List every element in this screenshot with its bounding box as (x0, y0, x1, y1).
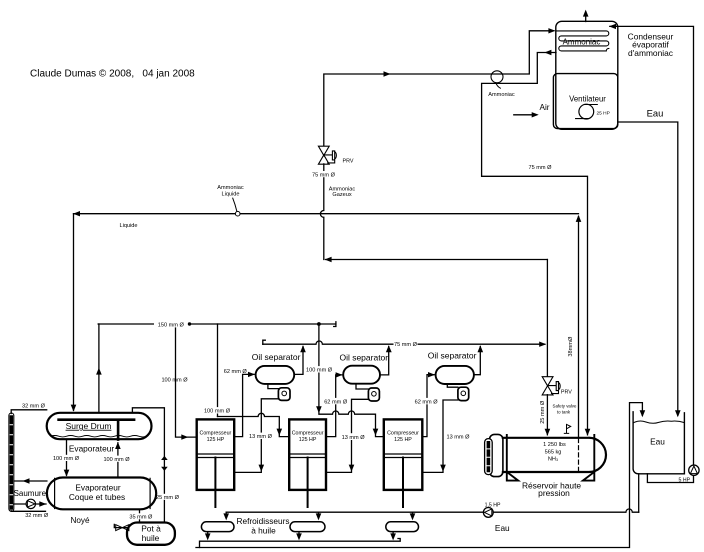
wire: discharge tee vertical x=547.4 down to PRV2 (546, 260, 548, 377)
svg-text:Oil separator: Oil separator (339, 353, 388, 363)
oil trap 3 (458, 387, 469, 400)
wire: compressor3 discharge 62mm to oil separator3 (422, 375, 434, 437)
high pressure receiver vessel (503, 438, 606, 472)
svg-text:25 mm Ø: 25 mm Ø (156, 495, 180, 501)
svg-text:à huile: à huile (251, 526, 276, 536)
arrow: vent stack up (583, 10, 589, 17)
wire: oil separator3 bottom to trap3 (447, 384, 458, 387)
wire: suction drop to compressor1 left x=175.5 (176, 324, 197, 437)
wire: oil separator2 bottom to trap2 (356, 384, 368, 389)
svg-text:Evaporateur: Evaporateur (75, 482, 120, 492)
arrow: oil pot line double arrow up (161, 456, 168, 460)
arrow: suction into compressor3 (373, 429, 379, 436)
junction dots on suction header (188, 322, 191, 325)
arrow: into condenser coil (548, 28, 555, 33)
svg-text:62 mm Ø: 62 mm Ø (324, 399, 348, 405)
label: 13 mm diam 1 (248, 433, 273, 441)
arrow: condenser liquid out left (544, 50, 551, 55)
label: 25 mm diam oil pot line (156, 494, 180, 501)
svg-text:62 mm Ø: 62 mm Ø (415, 399, 439, 405)
wire: bottom water return line to tank riser (196, 403, 642, 548)
wire: liquid line drop to surge drum x=73.5 (73, 214, 75, 411)
condenser: fan section box (553, 74, 617, 129)
svg-text:Air: Air (539, 103, 549, 112)
arrow: suction drop x=318.9 down (316, 406, 322, 413)
arrow: discharge header right into tee (539, 342, 546, 347)
wire: cooling water drops into oil coolers (226, 512, 412, 517)
svg-text:100 mm Ø: 100 mm Ø (103, 457, 130, 463)
svg-text:PRV: PRV (343, 158, 354, 164)
label: 100 mm diam drop x217 (203, 407, 231, 415)
label: 100 mm diam evap riser (103, 456, 130, 463)
arrow: oil separator3 riser up (478, 345, 484, 352)
svg-text:d'ammoniac: d'ammoniac (628, 48, 673, 58)
svg-text:32 mm Ø: 32 mm Ø (25, 513, 49, 519)
oil pot vessel (127, 523, 175, 545)
svg-text:100 mm Ø: 100 mm Ø (53, 456, 80, 462)
ammoniac label loop on gas line (491, 71, 503, 83)
wire: condenser water outlet to tank (618, 122, 678, 415)
wire: compressor2 discharge 62mm to oil separator2 (326, 375, 342, 437)
svg-text:Ventilateur: Ventilateur (569, 95, 606, 104)
svg-text:Eau: Eau (495, 523, 510, 533)
compressor 3 body (384, 419, 423, 490)
svg-text:Pot à: Pot à (141, 523, 161, 533)
svg-text:1 250 lbs: 1 250 lbs (543, 442, 566, 448)
svg-text:pression: pression (538, 488, 570, 498)
wire: oil separator1 outlet riser (294, 347, 303, 375)
svg-text:Saumure: Saumure (14, 489, 47, 498)
wire: suction drop x=318.9 to compressor3 (319, 324, 384, 437)
arrow: liquid line left at corner (73, 211, 80, 216)
svg-text:Surge Drum: Surge Drum (66, 421, 112, 431)
surge drum liquid level wavy line (51, 436, 147, 437)
water tank walls (633, 412, 684, 474)
arrow: suction riser up mid (96, 368, 102, 375)
oil trap 1 (278, 388, 290, 401)
arrow: water drop cooler1 (223, 513, 229, 520)
svg-text:Compresseur: Compresseur (387, 431, 419, 437)
wire: surge drum inlet from evaporator 100mm (66, 440, 68, 476)
svg-text:NH₃: NH₃ (548, 456, 558, 462)
wire: oil cooler drains to collect line (208, 532, 393, 538)
arrow: brine into evaporator (39, 501, 46, 506)
svg-text:75 mm Ø: 75 mm Ø (528, 165, 552, 171)
wire: evaporator drain to oil pot 35mm (139, 509, 141, 522)
label: 75 mm diam PRV1 (311, 171, 336, 177)
surge drum vessel (47, 413, 152, 439)
wire: suction header end bracket (334, 322, 336, 327)
arrow: oil return2 down (349, 465, 355, 472)
compressor 2 body (289, 419, 326, 490)
arrow: brine out left (23, 478, 30, 483)
arrow: PRV2 into receiver (545, 429, 551, 436)
wire: brine outlet to chiller column (14, 480, 47, 482)
svg-text:huile: huile (142, 533, 160, 543)
wire: tank overflow drop to bottom water line (638, 474, 640, 512)
arrow: cooler3 drain (390, 533, 396, 540)
arrow: air inlet (532, 112, 539, 117)
wire: chiller column top connection 32mm (11, 410, 47, 414)
brine pump (26, 499, 35, 508)
svg-text:62 mm Ø: 62 mm Ø (224, 369, 248, 375)
svg-text:35 mm Ø: 35 mm Ø (129, 514, 153, 520)
arrow: water into tank from return riser (640, 410, 646, 417)
arrow: oil separator1 riser up (300, 345, 306, 352)
svg-text:Claude Dumas © 2008, 04 jan: Claude Dumas © 2008, 04 jan 2008 (30, 69, 195, 80)
wire: oil return3 13mm to compressor3 (422, 400, 458, 472)
svg-text:Oil separator: Oil separator (428, 351, 477, 361)
arrow: condenser drain into receiver (585, 429, 591, 436)
svg-text:125 HP: 125 HP (394, 437, 412, 443)
wire: PRV2 to reservoir top (546, 395, 548, 435)
svg-text:Ammoniac: Ammoniac (563, 38, 601, 47)
label: 100 mm diam drum to evap (53, 455, 80, 462)
arrow: water into condenser top (609, 24, 616, 29)
receiver dip tube dashed (578, 439, 580, 472)
wire: hot gas line y=259.5 from discharge tee (326, 259, 548, 261)
wire: air inlet arrow line (514, 114, 537, 116)
arrow: cooler1 drain (205, 533, 211, 540)
label: 150 mm diam (154, 321, 188, 329)
oil separator 3 vessel (436, 366, 474, 384)
arrow: receiver riser up to liquid line (576, 215, 582, 222)
oil cooler 2 (290, 522, 325, 532)
arrow: into oil separator2 (336, 372, 343, 377)
wire: surge drum suction riser x=98.9 (97, 324, 100, 413)
svg-text:75 mm Ø: 75 mm Ø (312, 172, 336, 178)
svg-text:Compresseur: Compresseur (200, 431, 232, 437)
svg-text:125 HP: 125 HP (207, 437, 225, 443)
wire: collect line y=541.2 with end hook (200, 539, 401, 548)
oil separator 1 vessel (256, 366, 295, 384)
water tank wave (633, 421, 684, 423)
oil separator 2 vessel (343, 366, 380, 384)
wire: condenser vent stack (585, 12, 587, 21)
svg-text:75 mm Ø: 75 mm Ø (394, 342, 418, 348)
arrow: into oil separator3 (428, 372, 435, 377)
oil trap 2 (368, 388, 379, 401)
condenser: fan circle (579, 104, 594, 119)
wire: brine pump line 32mm (14, 503, 47, 505)
svg-text:1,5 HP: 1,5 HP (485, 502, 501, 508)
arrow: suction into compressor2 (277, 429, 283, 436)
condenser: ammonia coil serpentine (556, 31, 609, 51)
receiver level flag (564, 424, 570, 433)
receiver level gauge (485, 439, 493, 475)
label: 62 mm diam comp3 (413, 398, 439, 406)
arrow: liquid into surge drum (71, 405, 77, 412)
arrow: oil return3 down (440, 465, 446, 472)
svg-text:100 mm Ø: 100 mm Ø (306, 368, 333, 374)
wire: oil separator1 bottom to trap1 (268, 384, 279, 389)
wire: surge drum right port to oil pot 25mm (132, 408, 164, 523)
svg-text:Evaporateur: Evaporateur (69, 444, 114, 454)
receiver support right (583, 435, 594, 481)
wire: evaporator return riser 100mm (117, 443, 119, 478)
label: 13 mm diam 2 (339, 433, 367, 441)
svg-text:to tank: to tank (557, 409, 571, 414)
arrow: evaporator riser up into drum (115, 442, 121, 449)
svg-text:125 HP: 125 HP (299, 437, 317, 443)
wire: cooling water line y=512.2 with hop (226, 509, 639, 512)
wire: suction drop x=217.5 (217, 324, 219, 417)
svg-text:Liquide: Liquide (221, 191, 239, 197)
wire: compressor1 discharge 62mm to oil separator1 (234, 374, 254, 436)
svg-text:150 mm Ø: 150 mm Ø (158, 322, 185, 328)
arrow: gas to condenser right (384, 71, 391, 76)
receiver left flange (490, 434, 503, 476)
receiver support left (507, 435, 518, 481)
svg-text:13 mm Ø: 13 mm Ø (446, 434, 470, 440)
svg-text:Gazeux: Gazeux (332, 192, 351, 198)
compressor 1 body (197, 419, 235, 490)
arrow: oil separator2 riser up (386, 345, 392, 352)
wire: condenser water supply line from pump (610, 26, 694, 465)
arrow: into oil separator1 (248, 372, 255, 377)
wire: oil separator3 outlet riser (474, 347, 480, 375)
label: 100 mm diam drop x318 (305, 366, 333, 374)
water pump 1.5HP (483, 508, 493, 518)
svg-text:Noyé: Noyé (70, 516, 90, 525)
wire: oil return1 13mm to compressor1 (234, 399, 278, 473)
label: 62 mm diam comp2 (323, 398, 348, 406)
arrow: oil return1 down (259, 465, 265, 472)
wire: liquid line from receiver to surge drum y=213.7 (74, 213, 579, 215)
wire: chiller column bottom line (11, 510, 45, 513)
arrow: condenser water into tank (675, 410, 681, 417)
brine chiller column (9, 413, 14, 511)
svg-text:Coque et tubes: Coque et tubes (69, 492, 125, 502)
svg-text:25 mm Ø: 25 mm Ø (540, 400, 546, 424)
liquid line label node (235, 211, 240, 216)
valve: oil pot drain valve (116, 525, 129, 531)
valve PRV1 (318, 146, 336, 164)
svg-text:Safety valve: Safety valve (553, 403, 577, 408)
svg-text:Compresseur: Compresseur (292, 431, 324, 437)
svg-text:Eau: Eau (650, 437, 665, 447)
wire: oil separator2 outlet riser (380, 347, 389, 375)
valve PRV2 (542, 377, 560, 395)
wire: suction branch y=416.5 to compressor2 (218, 413, 290, 436)
label: 75 mm diam discharge header (394, 340, 418, 348)
arrow: water drop cooler2 (316, 513, 322, 520)
svg-text:5 HP: 5 HP (679, 477, 691, 483)
oil cooler 1 (201, 522, 234, 532)
evaporator shell and tubes vessel (47, 478, 156, 510)
svg-text:32 mm Ø: 32 mm Ø (22, 404, 46, 410)
svg-text:Liquide: Liquide (119, 223, 137, 229)
svg-text:25 HP: 25 HP (597, 111, 610, 117)
svg-text:565 kg: 565 kg (545, 449, 562, 455)
wire: oil return2 13mm to compressor2 (326, 399, 368, 472)
svg-text:Ammoniac: Ammoniac (488, 92, 515, 98)
svg-text:Oil separator: Oil separator (252, 352, 301, 362)
water pump 5HP (689, 465, 699, 475)
svg-text:13 mm Ø: 13 mm Ø (342, 435, 366, 441)
arrow: suction into compressor1 (181, 434, 188, 439)
wire: receiver dip tube riser x=578.5 (578, 217, 580, 438)
wire: suction header 150mm (98, 323, 336, 325)
wire: compressor discharge header 75mm (263, 341, 545, 344)
svg-text:100 mm Ø: 100 mm Ø (161, 378, 188, 384)
svg-text:PRV: PRV (561, 389, 572, 395)
wire: discharge header start bracket (263, 340, 266, 344)
arrow: water drop cooler3 (410, 513, 416, 520)
wire: condenser liquid drain 75mm (482, 53, 588, 435)
arrow: hot gas line left into PRV riser (325, 257, 332, 262)
arrow: surge drum down to evaporator (64, 470, 70, 477)
svg-text:Eau: Eau (647, 108, 664, 119)
svg-text:38mmØ: 38mmØ (568, 336, 574, 357)
svg-text:Ammoniac: Ammoniac (217, 185, 244, 191)
oil cooler 3 (386, 522, 419, 532)
arrow: cooler2 drain (296, 533, 302, 540)
label: 13 mm diam 3 (445, 433, 471, 441)
wire: oil pot valve stub (114, 524, 127, 527)
surge drum internal distributor pipe (59, 418, 135, 421)
wire: gas riser to condenser (75mm) with hop over liquid line (320, 164, 323, 260)
wire: pump 5HP suction from tank bottom (647, 474, 693, 483)
svg-text:100 mm Ø: 100 mm Ø (204, 409, 231, 415)
label: 35 mm diam (129, 513, 153, 520)
condenser: outer shell (556, 21, 618, 129)
svg-text:13 mm Ø: 13 mm Ø (249, 434, 273, 440)
